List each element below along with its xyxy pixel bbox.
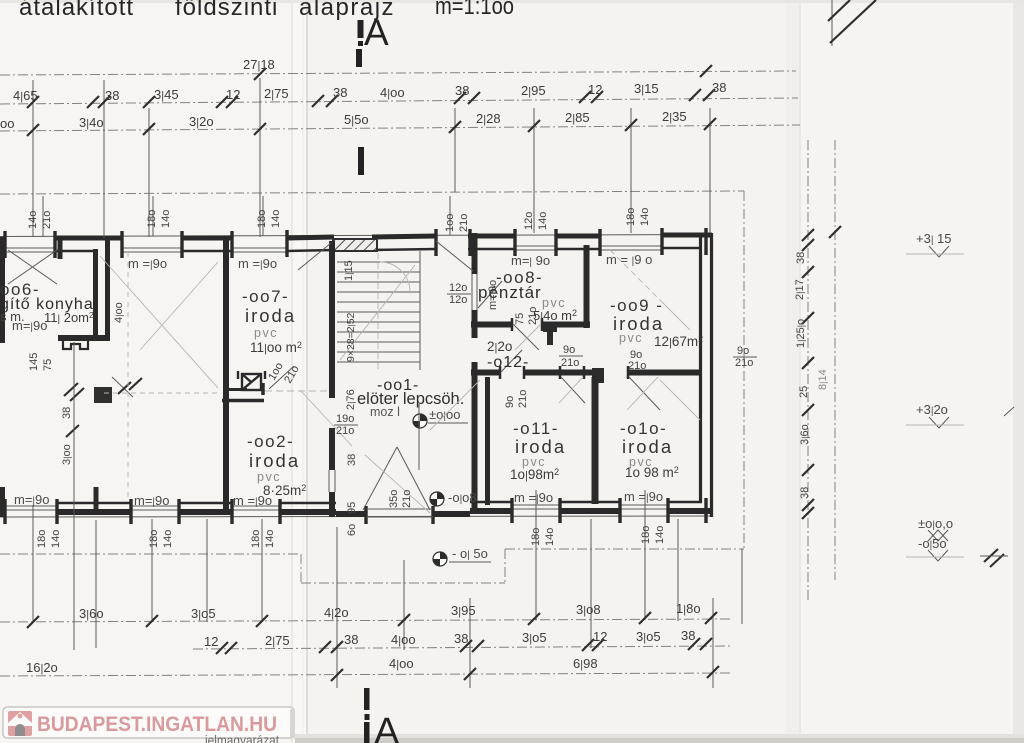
svg-text:14o: 14o: [544, 528, 556, 546]
vertical dim lines top: [33, 78, 710, 238]
marker -0.08: [430, 490, 477, 506]
right edge shading: [1013, 0, 1024, 743]
svg-text:14o: 14o: [639, 208, 651, 226]
hatched stair outer wall: [333, 239, 377, 251]
door swing 010: [629, 377, 660, 410]
bottom wall outer thin line: [0, 516, 712, 517]
marker -0.50: [433, 546, 491, 566]
svg-text:21o: 21o: [458, 214, 470, 232]
hall faint cross: [159, 149, 161, 151]
wall 011 left inner: [485, 377, 490, 505]
marker +-0.00: [413, 404, 468, 470]
canopy top line: [0, 191, 744, 194]
svg-text:pvc: pvc: [254, 326, 278, 340]
svg-text:m=1:1oo: m=1:1oo: [435, 0, 514, 20]
svg-text:4|65: 4|65: [13, 88, 38, 103]
svg-text:4|oo: 4|oo: [389, 656, 414, 671]
penztar left door lines: [472, 274, 477, 310]
svg-text:iroda: iroda: [249, 450, 300, 471]
svg-text:12: 12: [204, 634, 218, 649]
konyha right wall: [93, 249, 98, 341]
dim ticks bottom rows: [27, 612, 719, 681]
small equal ticks right: [984, 549, 1004, 567]
stub door jamb: [261, 383, 265, 395]
fold band right: [786, 0, 801, 743]
right chain ticks: [802, 226, 841, 519]
T pillar below penztar: [543, 324, 557, 332]
svg-text:9×28=2|52: 9×28=2|52: [345, 312, 357, 362]
svg-text:19o: 19o: [336, 413, 354, 425]
svg-text:9o: 9o: [563, 344, 575, 356]
svg-text:3|95: 3|95: [451, 603, 476, 618]
svg-text:11|oo m2: 11|oo m2: [250, 340, 302, 355]
svg-text:14o: 14o: [50, 530, 62, 548]
bottom edge shading: [295, 738, 1024, 743]
svg-text:38: 38: [454, 631, 468, 646]
svg-text:1|8o: 1|8o: [676, 601, 701, 616]
svg-text:14o: 14o: [160, 210, 172, 228]
svg-text:12: 12: [593, 629, 607, 644]
svg-text:9o: 9o: [737, 345, 749, 357]
svg-text:m =|9o: m =|9o: [128, 256, 167, 271]
svg-text:18o: 18o: [148, 530, 160, 548]
stub wall 007 bottom upper line: [223, 388, 247, 391]
canopy right vertical: [743, 191, 745, 549]
svg-text:-o12-: -o12-: [487, 354, 529, 371]
svg-text:földszinti: földszinti: [175, 0, 278, 21]
svg-text:2|35: 2|35: [662, 109, 687, 124]
svg-text:21o: 21o: [527, 307, 539, 325]
konyha bottom wall: [58, 335, 105, 341]
fraction labels: [334, 282, 757, 437]
top wall solid piers: [55, 235, 712, 238]
hall/corridor wall gap jambs: [472, 362, 478, 514]
svg-text:18o: 18o: [250, 530, 262, 548]
door swing 008 bottom: [513, 324, 539, 350]
svg-text:m = |9 o: m = |9 o: [606, 252, 652, 267]
house icon: [8, 711, 32, 736]
svg-text:-oo2-: -oo2-: [247, 432, 294, 451]
svg-text:m=|9o: m=|9o: [134, 493, 170, 508]
svg-text:38: 38: [344, 632, 358, 647]
svg-text:16|2o: 16|2o: [26, 660, 58, 675]
svg-text:iroda: iroda: [515, 436, 566, 457]
terrace line left: [0, 553, 301, 555]
svg-text:jelmagyarázat: jelmagyarázat: [204, 732, 279, 743]
right outer wall outer face: [710, 233, 713, 517]
stair treads: [337, 262, 420, 362]
canopy bottom right: [505, 548, 744, 550]
svg-text:75: 75: [42, 359, 54, 371]
svg-text:38: 38: [681, 628, 695, 643]
svg-text:38: 38: [105, 88, 119, 103]
svg-text:14o: 14o: [264, 530, 276, 548]
svg-text:18o: 18o: [640, 526, 652, 544]
niche wall: [105, 239, 110, 341]
svg-text:12o: 12o: [449, 282, 467, 294]
top edge shading: [0, 0, 1024, 3]
top row1 line 27.18: [0, 71, 796, 75]
svg-text:18o: 18o: [530, 528, 542, 546]
penztar left wall top: [472, 233, 478, 274]
svg-text:átalakított: átalakított: [19, 0, 134, 21]
svg-text:38: 38: [795, 252, 807, 264]
svg-text:38: 38: [346, 454, 358, 466]
svg-text:A: A: [364, 12, 389, 53]
svg-text:1oo: 1oo: [444, 214, 456, 232]
002 left pier: [94, 487, 99, 512]
svg-text:m =|9o: m =|9o: [514, 490, 553, 505]
svg-text:2|17: 2|17: [794, 279, 806, 300]
svg-text:3|o8: 3|o8: [576, 602, 601, 617]
svg-text:12: 12: [588, 82, 602, 97]
top wall jamb ticks: [5, 228, 706, 258]
canopy jog vertical: [504, 549, 506, 583]
door swing stub 007: [269, 366, 294, 389]
svg-text:21o: 21o: [401, 490, 413, 508]
svg-text:2|85: 2|85: [565, 110, 590, 125]
corridor 012 bottom wall segs: [471, 370, 701, 376]
fold band center: [292, 0, 308, 743]
svg-text:12o: 12o: [523, 212, 535, 230]
svg-text:4|oo: 4|oo: [391, 632, 416, 647]
door swing corridor left: [501, 350, 522, 372]
svg-text:3|o5: 3|o5: [191, 606, 216, 621]
left edge wall stubs: [0, 237, 5, 517]
svg-text:14o: 14o: [27, 211, 39, 229]
svg-text:21o: 21o: [336, 425, 354, 437]
svg-text:38: 38: [455, 83, 469, 98]
svg-text:pvc: pvc: [257, 470, 281, 484]
svg-text:21o: 21o: [561, 357, 579, 369]
svg-text:18o: 18o: [146, 210, 158, 228]
svg-text:3|15: 3|15: [634, 81, 659, 96]
bottom wall jamb ticks: [5, 498, 706, 524]
svg-text:6|98: 6|98: [573, 656, 598, 671]
svg-text:A: A: [374, 711, 400, 743]
bottom rowB line: [193, 646, 730, 649]
stair faint diagonals: [340, 265, 415, 360]
svg-text:1|15: 1|15: [343, 260, 355, 281]
svg-text:-oo7-: -oo7-: [242, 287, 289, 306]
top row3 line: [0, 125, 800, 131]
svg-text:12|67m2: 12|67m2: [654, 334, 703, 349]
svg-text:3|o5: 3|o5: [636, 629, 661, 644]
svg-text:moz l: moz l: [370, 405, 400, 419]
svg-text:14o: 14o: [270, 210, 282, 228]
entry door chevron: [363, 447, 397, 510]
stair left wall lower: [329, 492, 335, 517]
door arc penztar entry: [380, 262, 410, 292]
svg-text:1o 98 m2: 1o 98 m2: [625, 465, 679, 480]
svg-text:95: 95: [346, 502, 358, 514]
svg-text:12: 12: [226, 87, 240, 102]
svg-text:3|oo: 3|oo: [61, 444, 73, 465]
svg-text:35o: 35o: [388, 490, 400, 508]
svg-text:iroda: iroda: [622, 436, 673, 457]
right side vertical dim chain: [808, 140, 835, 602]
svg-text:8|14: 8|14: [817, 369, 829, 390]
stair left wall mid: [329, 428, 335, 470]
entry door sill lines: [366, 508, 433, 510]
svg-text:+3| 15: +3| 15: [916, 231, 952, 246]
svg-text:-o|o8: -o|o8: [448, 490, 477, 505]
svg-text:27|18: 27|18: [243, 57, 275, 72]
corridor pillar: [592, 368, 604, 383]
canopy bottom middle: [301, 582, 505, 584]
svg-text:21o: 21o: [628, 360, 646, 372]
vertical dim lines bottom: [33, 342, 742, 688]
konyha door X swing: [8, 250, 57, 284]
svg-text:14o: 14o: [654, 526, 666, 544]
bottom wall sill lines: [5, 505, 668, 510]
svg-text:14o: 14o: [537, 212, 549, 230]
svg-text:m=|9o: m=|9o: [14, 492, 50, 507]
svg-text:4|oo: 4|oo: [113, 302, 125, 323]
stub wall lower line: [222, 399, 264, 403]
pillar box with X: [238, 371, 265, 390]
svg-text:75: 75: [514, 313, 526, 325]
svg-text:oo: oo: [0, 116, 14, 131]
left chain window tick pair: [64, 378, 142, 437]
svg-text:3|2o: 3|2o: [189, 114, 214, 129]
svg-text:1o|98m2: 1o|98m2: [510, 467, 559, 482]
svg-text:38: 38: [61, 407, 73, 419]
konyha sill notch: [63, 341, 88, 349]
top wall outer thin line (windows): [0, 235, 712, 237]
bottom wall inner face lines: [57, 502, 702, 503]
svg-text:21o: 21o: [41, 211, 53, 229]
svg-text:12o: 12o: [449, 294, 467, 306]
pillar: [94, 387, 112, 403]
svg-text:18o: 18o: [36, 530, 48, 548]
wall 011/010 divider: [592, 377, 599, 504]
svg-text:±o|o,o: ±o|o,o: [918, 516, 953, 531]
svg-text:2|75: 2|75: [265, 633, 290, 648]
svg-text:m =|9o: m =|9o: [238, 256, 277, 271]
section mark A bottom: [364, 688, 400, 743]
svg-text:2|76: 2|76: [345, 389, 357, 410]
svg-text:14o: 14o: [162, 530, 174, 548]
svg-text:4|2o: 4|2o: [324, 605, 349, 620]
svg-text:21o: 21o: [735, 357, 753, 369]
svg-text:3|45: 3|45: [154, 87, 179, 102]
svg-text:1|25|o: 1|25|o: [795, 319, 807, 348]
corridor door jambs: [500, 366, 628, 379]
svg-text:m=|9o: m=|9o: [487, 280, 499, 310]
top right corner diagonals: [828, 0, 850, 21]
svg-text:38: 38: [333, 85, 347, 100]
stair center dashed line: [377, 253, 379, 372]
svg-text:18o: 18o: [256, 210, 268, 228]
svg-text:6o: 6o: [346, 524, 358, 536]
konyha west wall stub: [58, 237, 63, 259]
svg-text:m=|9o: m=|9o: [12, 318, 48, 333]
stub faint continuation: [265, 390, 332, 392]
dim ticks top rows: [27, 65, 716, 136]
svg-text:18o: 18o: [625, 208, 637, 226]
entry faint X: [300, 390, 352, 446]
penztar bottom door jambs: [511, 318, 514, 331]
svg-text:-o|5o: -o|5o: [918, 536, 947, 551]
svg-text:2|28: 2|28: [476, 111, 501, 126]
svg-text:4|oo: 4|oo: [380, 85, 405, 100]
right outer wall inner face: [699, 235, 702, 503]
svg-text:9o: 9o: [504, 396, 516, 408]
right chain rotated labels: [794, 252, 829, 499]
svg-text:25: 25: [798, 386, 810, 398]
svg-text:pvc: pvc: [619, 331, 643, 345]
svg-text:2|95: 2|95: [521, 83, 546, 98]
stair right edge: [419, 251, 421, 370]
svg-text:5|4o m2: 5|4o m2: [533, 308, 577, 323]
konyha niche door diag: [112, 377, 133, 397]
bottom rowC line: [0, 673, 730, 676]
svg-text:145: 145: [28, 353, 40, 371]
bottom rowA line: [0, 619, 730, 622]
svg-text:2|75: 2|75: [264, 86, 289, 101]
svg-text:3|4o: 3|4o: [79, 115, 104, 130]
stair left wall upper: [329, 241, 335, 398]
canopy jog left: [300, 554, 302, 583]
svg-text:5|5o: 5|5o: [344, 112, 369, 127]
svg-text:38: 38: [799, 487, 811, 499]
bottom wall solid piers: [57, 511, 712, 514]
top wall window sill lines: [5, 246, 662, 252]
svg-text:m =|9o: m =|9o: [233, 493, 272, 508]
stair top-left door diag: [298, 243, 331, 270]
svg-text:11| 2om2: 11| 2om2: [44, 310, 94, 325]
svg-text:38: 38: [712, 80, 726, 95]
door swing 008 left: [478, 281, 502, 308]
svg-text:iroda: iroda: [245, 305, 296, 326]
penztar right wall: [584, 245, 590, 328]
svg-text:21o: 21o: [517, 390, 529, 408]
door swing 011: [561, 377, 585, 403]
top row2 line: [0, 98, 798, 104]
svg-text:2|2o: 2|2o: [487, 339, 512, 354]
svg-text:m =|9o: m =|9o: [624, 489, 663, 504]
svg-text:3|o5: 3|o5: [522, 630, 547, 645]
penztar bottom wall: [471, 322, 512, 328]
door swing top of 008 bay: [436, 241, 473, 271]
svg-text:- o| 5o: - o| 5o: [452, 546, 488, 561]
svg-text:3|6o: 3|6o: [79, 606, 104, 621]
penztar left wall bottom piece: [472, 310, 478, 338]
wall 007/002 x226: [223, 240, 229, 512]
svg-text:3|6o: 3|6o: [799, 424, 811, 445]
top wall inner face lines: [55, 248, 700, 251]
stair wall window: [329, 470, 335, 492]
